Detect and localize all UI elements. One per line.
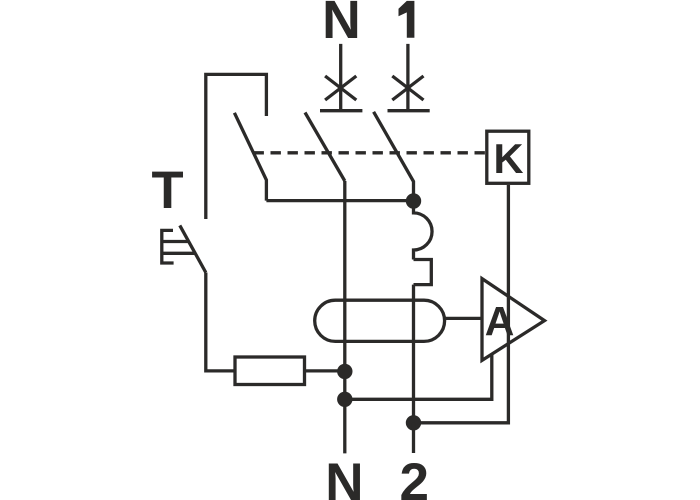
terminal 1 clamp symbol [388,44,430,111]
magnetic trip coil [414,201,433,260]
svg-text:T: T [151,161,183,220]
switch blade: test button contact [180,225,206,272]
mechanical linkage (dashed) to relay K [254,151,486,154]
node: pole 1 test tap [406,193,421,208]
switch blade: pole 1 [374,112,414,201]
wire: resistor to node on N [304,369,345,372]
wire: pole N conductor through toroid [343,181,346,453]
resistor (test) [235,357,305,385]
wire: relay K to node on pole 1 [414,185,509,423]
switch blade: pole N [305,113,345,182]
label 1 (top terminal) [399,1,415,38]
wire: toroid secondary to amplifier [445,317,482,320]
node: pole 1 lower junction [406,415,421,430]
switch blade: auxiliary test contact [234,113,266,201]
relay K [487,131,529,183]
wire: aux contact to node on pole 1 [266,199,413,202]
amplifier A [482,279,545,361]
node: N amplifier junction [337,392,352,407]
thermal trip element [414,260,432,285]
svg-text:N: N [325,453,363,500]
wire: test button to resistor [206,273,236,371]
wire: amplifier to node on N [345,354,492,399]
wire: pole 1 to terminal 2 [412,423,415,453]
terminal N clamp symbol [320,44,362,111]
wire: test contact fixed lead (hook) [206,74,267,219]
wire: pole 1 conductor through toroid [412,285,415,423]
svg-text:2: 2 [400,453,429,500]
test button actuator [162,230,195,263]
node: N test resistor junction [337,364,352,379]
svg-text:N: N [322,0,361,50]
svg-text:K: K [494,135,524,182]
toroidal core (current transformer) [315,300,445,341]
